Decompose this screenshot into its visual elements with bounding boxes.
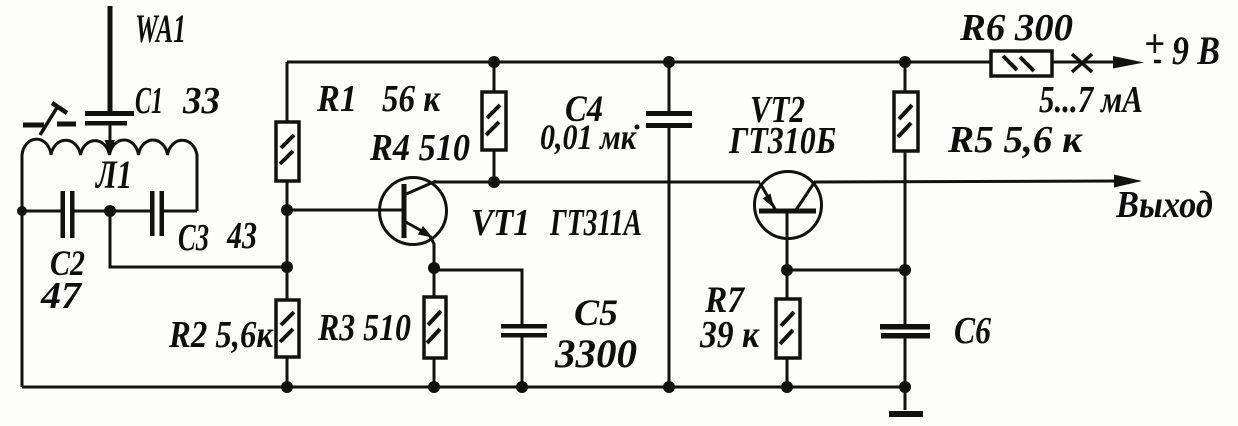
node R2 bottom	[281, 381, 293, 393]
wire emitter to C5	[434, 270, 522, 324]
wire base to R5 C6	[787, 269, 905, 272]
resistor R6	[991, 51, 1052, 76]
svg-text:Выход: Выход	[1115, 184, 1213, 226]
node C4 top	[663, 56, 675, 68]
capacitor C1	[85, 111, 134, 126]
ink speck after C4 value	[635, 125, 640, 130]
resistor R1	[276, 122, 299, 181]
svg-text:+: +	[1144, 21, 1165, 66]
measurement point x	[1072, 54, 1092, 72]
wire C5 to rail	[521, 337, 524, 387]
capacitor C3	[150, 191, 164, 236]
svg-text:R2 5,6к: R2 5,6к	[168, 314, 274, 356]
node VT2 base junction	[781, 264, 793, 276]
svg-text:ГТ310Б: ГТ310Б	[728, 120, 836, 162]
node tap junction at divider	[281, 261, 293, 273]
trimmer adjustment arrow	[40, 106, 58, 135]
svg-text:С5: С5	[574, 293, 618, 334]
svg-text:WA1: WA1	[135, 6, 186, 51]
node C5 bottom	[516, 381, 528, 393]
output arrowhead	[1114, 175, 1142, 188]
wire tank line right	[164, 210, 197, 213]
node R4 bottom	[488, 176, 500, 188]
svg-text:VT1: VT1	[471, 202, 530, 244]
ink tick under plus	[1154, 60, 1161, 64]
svg-text:R5 5,6 к: R5 5,6 к	[947, 119, 1084, 161]
capacitor C2	[61, 191, 75, 238]
wire L1 left leg down to bottom rail	[21, 158, 24, 387]
svg-text:R1: R1	[316, 78, 357, 120]
node base divider junction	[281, 204, 293, 216]
antenna WA1	[108, 6, 113, 112]
resistor R7	[776, 270, 800, 387]
resistor R4	[482, 62, 506, 182]
wire tap to base node	[110, 211, 287, 267]
ground	[889, 387, 923, 414]
svg-text:47: 47	[40, 275, 83, 317]
svg-text:R4 510: R4 510	[369, 127, 470, 169]
wire C6 to rail	[904, 338, 907, 387]
capacitor C4	[646, 62, 692, 387]
trimmer core dash left	[23, 123, 44, 128]
wire bottom rail	[22, 386, 905, 389]
trimmer core dash right	[57, 122, 76, 127]
node R4 top	[488, 56, 500, 68]
svg-text:33: 33	[182, 80, 220, 122]
resistor R2	[276, 300, 299, 357]
node tank left junction	[17, 206, 27, 216]
svg-text:9 В: 9 В	[1172, 28, 1220, 73]
wire C1 to L1 tap	[109, 125, 112, 144]
wire tank line left	[22, 210, 61, 213]
node R5 top	[899, 56, 911, 68]
svg-text:43: 43	[226, 215, 257, 257]
svg-text:С3: С3	[178, 217, 209, 259]
wire top rail	[287, 61, 995, 64]
resistor R5	[894, 62, 918, 324]
svg-text:5...7 мА: 5...7 мА	[1039, 79, 1143, 121]
tap arrowhead	[105, 140, 116, 153]
svg-text:R6 300: R6 300	[959, 7, 1073, 49]
svg-text:0,01 мк: 0,01 мк	[540, 117, 637, 157]
node R3 bottom	[428, 381, 440, 393]
svg-text:56 к: 56 к	[382, 78, 442, 120]
wire VT2 collector to output arrow	[814, 181, 1122, 182]
svg-text:Л1: Л1	[94, 152, 132, 197]
node VT1 emitter junction	[428, 262, 440, 274]
node C6 bottom	[899, 381, 911, 393]
wire L1 right leg down to tank line	[196, 158, 199, 211]
resistor R3	[424, 268, 446, 387]
transistor VT1	[380, 178, 447, 269]
svg-text:ГТ311А: ГТ311А	[549, 202, 642, 244]
svg-text:R3 510: R3 510	[317, 307, 411, 349]
wire tank line mid	[75, 210, 151, 213]
inductor L1	[22, 139, 197, 160]
node R5 C6 junction	[899, 264, 911, 276]
svg-text:С6: С6	[954, 310, 991, 352]
supply arrowhead	[1113, 56, 1144, 69]
node tank tap junction	[104, 205, 116, 217]
wire R1 R2 vertical	[286, 62, 289, 387]
svg-text:39 к: 39 к	[699, 314, 760, 356]
capacitor C6	[880, 324, 930, 339]
svg-text:3300: 3300	[554, 331, 637, 376]
svg-text:С1: С1	[135, 80, 163, 122]
wire top rail right of R6	[1048, 61, 1124, 64]
wire collector output line	[435, 181, 760, 184]
node C4 bottom	[663, 381, 675, 393]
capacitor C5	[501, 324, 547, 338]
node R7 bottom	[781, 381, 793, 393]
wire base line VT1	[287, 209, 402, 212]
transistor VT2	[755, 172, 822, 271]
